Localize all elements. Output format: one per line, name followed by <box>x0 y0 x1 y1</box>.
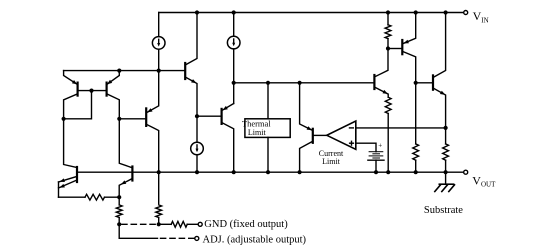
wire dashed R6-R7 link <box>122 223 156 225</box>
wire GND lead <box>159 223 172 225</box>
wire I1 drop <box>158 13 160 37</box>
node R6 bottom <box>117 222 121 226</box>
wire mirror emitter bus <box>64 70 186 72</box>
svg-text:Substrate: Substrate <box>424 205 463 216</box>
node R2 on output rail <box>386 170 390 174</box>
svg-text:Limit: Limit <box>322 157 341 166</box>
svg-text:V: V <box>472 173 481 187</box>
wire I1 to base bus <box>158 49 160 70</box>
wire top V_IN rail <box>159 12 464 14</box>
transistor Q4 (PNP driver) <box>388 48 401 50</box>
svg-text:Limit: Limit <box>248 128 267 137</box>
svg-text:ADJ. (adjustable output): ADJ. (adjustable output) <box>203 234 307 245</box>
transistor Q2 (PNP mirror left) <box>76 83 78 96</box>
node I3 on output rail <box>195 170 199 174</box>
terminal V_OUT <box>464 170 468 174</box>
transistor Q3 (PNP mirror right) <box>105 83 107 96</box>
node R1 / Q4 base <box>386 46 390 50</box>
svg-text:V: V <box>473 9 482 23</box>
transistor Q6 (PNP) <box>221 109 223 124</box>
transistor Q10 (dual-emitter NPN) <box>76 167 78 182</box>
wire thermal limit top <box>267 83 269 119</box>
resistor R5 <box>85 194 105 200</box>
wire ADJ dashed <box>161 237 195 239</box>
current source I2 <box>227 36 240 49</box>
resistor R4 <box>445 128 447 144</box>
wire R5 to node <box>105 196 120 198</box>
node battery on output rail <box>374 170 378 174</box>
wire I2 to Q6 emitter <box>233 49 235 104</box>
wire Q7 collector <box>146 124 159 203</box>
wire V_OUT rail <box>77 171 464 173</box>
resistor R2 <box>385 97 391 113</box>
node drive bus tap <box>232 81 236 85</box>
wire Q7 base <box>119 118 146 120</box>
node thermal tap <box>266 81 270 85</box>
transistor Q5 (NPN output) <box>416 82 433 84</box>
wire Q9 base to comparator <box>313 134 327 136</box>
resistor R8 (GND) <box>171 221 187 227</box>
wire comparator plus input <box>356 143 376 152</box>
block thermal limit <box>245 119 290 138</box>
resistor R7 <box>156 205 162 218</box>
node Q5 emitter on output rail <box>444 170 448 174</box>
node minus input sense <box>444 126 448 130</box>
transistor Q7 (PNP) <box>145 108 147 126</box>
terminal V_IN <box>464 11 468 15</box>
node Q9 collector on output rail <box>298 170 302 174</box>
resistor R3 <box>415 83 417 144</box>
node Q4 collector / Q5 base <box>414 81 418 85</box>
wire Q2-Q3 base tie <box>78 90 107 92</box>
node base tie <box>89 89 93 93</box>
ground substrate <box>445 172 447 184</box>
wire I2 drop <box>233 13 235 37</box>
wire drive bus <box>234 82 375 84</box>
resistor R6 <box>116 205 122 218</box>
transistor Q11 (NPN) <box>131 167 133 181</box>
resistor R1 <box>387 13 389 25</box>
node R5/Q11 emitter <box>117 195 121 199</box>
node thermal on output rail <box>266 170 270 174</box>
wire thermal limit bottom <box>267 137 269 172</box>
current source I3 <box>196 116 198 142</box>
node Q7 collector on output rail <box>157 170 161 174</box>
wire comparator minus input <box>356 127 446 129</box>
wire ADJ lead <box>119 224 157 238</box>
svg-text:GND (fixed output): GND (fixed output) <box>204 219 288 230</box>
wire Q3 collector to Q11 <box>119 119 132 168</box>
transistor Q9 (current limit PNP) <box>312 129 314 143</box>
op-amp current limit comparator <box>327 121 356 149</box>
node Qcl emitter tap <box>298 81 302 85</box>
node R7 bottom <box>157 222 161 226</box>
node bus junctions <box>117 69 121 73</box>
node top rail junctions <box>195 10 199 14</box>
svg-text:OUT: OUT <box>481 180 496 188</box>
terminal GND <box>198 222 202 226</box>
wire Q2 collector to Q10 <box>64 119 77 168</box>
svg-text:+: + <box>378 142 382 150</box>
node left column junctions <box>62 117 66 121</box>
wire Q10 emitters <box>59 196 86 198</box>
terminal ADJ <box>195 236 199 240</box>
transistor Q8 (NPN) <box>373 75 375 89</box>
svg-text:IN: IN <box>481 16 488 24</box>
node Q6 collector on output rail <box>232 170 236 174</box>
node Q1 emitter / Q6 base <box>195 114 199 118</box>
current source I1 <box>152 37 165 50</box>
transistor Q1 (NPN) <box>184 63 186 79</box>
node R3 on output rail <box>414 170 418 174</box>
wire base tie to collector <box>64 91 92 119</box>
